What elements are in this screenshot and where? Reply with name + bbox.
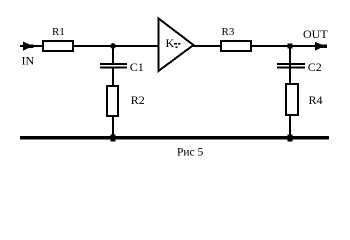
wire C2 to R4	[289, 68, 291, 84]
wire node B down to C2	[289, 46, 291, 84]
svg-text:C1: C1	[130, 60, 144, 74]
capacitor C2	[277, 63, 305, 65]
wire R4 to ground	[289, 115, 291, 138]
wire node A down to C1	[112, 46, 114, 64]
resistor R3	[221, 41, 251, 51]
wire C1 to R2	[112, 68, 114, 86]
capacitor C1	[100, 63, 127, 65]
wire amp to R3	[193, 45, 221, 47]
wire R3 to OUT	[252, 45, 322, 47]
IN arrowhead	[23, 42, 34, 51]
svg-text:R4: R4	[309, 93, 323, 107]
node B junction dot	[288, 44, 293, 49]
ground junction left	[111, 135, 116, 142]
svg-text:R3: R3	[222, 26, 235, 38]
svg-text:Рис 5: Рис 5	[177, 147, 204, 159]
wire R1 to amp	[74, 45, 158, 47]
OUT arrowhead	[315, 42, 327, 51]
ground junction right	[288, 135, 293, 142]
wire IN stub	[20, 45, 43, 47]
svg-text:R2: R2	[131, 93, 145, 107]
svg-text:OUT: OUT	[303, 27, 328, 41]
resistor R2	[107, 86, 118, 116]
resistor R4	[286, 84, 298, 115]
svg-text:IN: IN	[22, 54, 35, 68]
wire R2 to ground	[112, 116, 114, 138]
svg-text:C2: C2	[308, 60, 322, 74]
op-amp U1	[159, 19, 194, 72]
svg-text:R1: R1	[52, 26, 65, 38]
node A junction dot	[110, 43, 116, 49]
resistor R1	[43, 41, 73, 51]
ground bus	[20, 136, 329, 140]
svg-text:K: K	[166, 36, 175, 50]
